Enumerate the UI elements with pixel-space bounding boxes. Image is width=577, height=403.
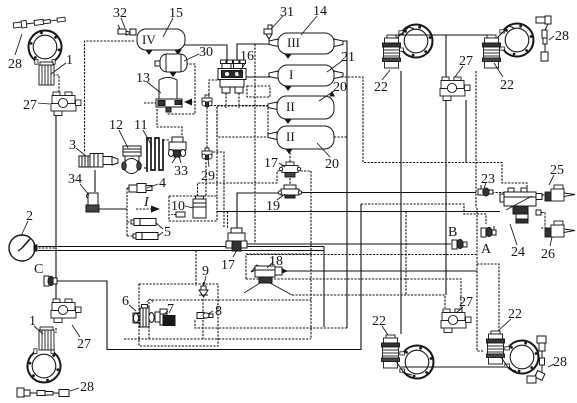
svg-text:I: I [289, 67, 293, 82]
wire valve27 TR right drop [465, 100, 467, 163]
svg-text:22: 22 [508, 307, 522, 322]
leader 2 [21, 221, 28, 236]
wire riser to trailer valve [477, 208, 484, 351]
svg-text:29: 29 [201, 169, 215, 184]
spring brake chamber 22c [382, 335, 400, 368]
svg-text:30: 30 [199, 45, 213, 60]
valve 27 bottom-left [51, 299, 81, 323]
box around regulator 10 [169, 196, 217, 221]
leader 30 [184, 54, 199, 61]
trailer control valve 24 [500, 188, 545, 228]
svg-text:25: 25 [550, 163, 564, 178]
svg-text:B: B [448, 225, 457, 240]
leader 26 [550, 237, 552, 246]
reservoir I [269, 65, 343, 90]
leader 10 [185, 206, 193, 208]
svg-text:2: 2 [26, 209, 33, 224]
accelerator valve 19 [278, 185, 301, 198]
hand brake valve 3 [79, 154, 118, 168]
wire rear brake return line [195, 319, 347, 328]
svg-text:28: 28 [80, 380, 94, 395]
svg-text:34: 34 [68, 172, 82, 187]
svg-text:17: 17 [221, 258, 235, 273]
box small manifold [247, 86, 270, 97]
wire riser x217 to regulator box [216, 107, 218, 196]
leader 34 [80, 184, 89, 195]
pressure gauge 2 [9, 235, 37, 261]
leader 1 bottom [34, 326, 43, 334]
svg-text:A: A [481, 242, 492, 257]
svg-text:21: 21 [341, 50, 355, 65]
valve B [452, 239, 467, 249]
wheel sensor 28 bottom-left [17, 388, 69, 397]
leader 17 lower [233, 250, 237, 257]
svg-text:22: 22 [372, 314, 386, 329]
svg-text:33: 33 [174, 164, 188, 179]
leader 1 top [51, 63, 66, 74]
wire drop from dual line [323, 247, 325, 328]
leader 28 bottom-right [548, 364, 554, 367]
wire arrow I line [136, 208, 153, 210]
wheel rear-bottom-right [505, 341, 539, 374]
wire valveA feed [361, 204, 486, 224]
leader 32 [121, 18, 125, 28]
svg-text:II: II [286, 129, 295, 144]
reservoir III [269, 33, 343, 58]
safety valve [202, 95, 212, 107]
wire arrow to safety valve [186, 101, 196, 103]
pressure reducer 4 [129, 184, 152, 193]
wheel front-bottom-left [27, 349, 60, 383]
wire chamber22b service line [475, 71, 477, 208]
leader 7 [163, 311, 168, 315]
wire dryer to regeneration loop [168, 64, 195, 114]
node I arrowhead [151, 206, 160, 213]
svg-text:22: 22 [374, 80, 388, 95]
svg-text:8: 8 [215, 304, 222, 319]
wire riser to parts 4 and 5 [126, 188, 128, 237]
leader 29 [208, 159, 209, 167]
wire valve27 TR to valve27 BR [445, 100, 447, 295]
wire control line to valve24 [217, 211, 500, 213]
svg-text:12: 12 [109, 118, 123, 133]
drain valve 29 [202, 148, 212, 160]
leader 22b [494, 63, 503, 77]
four-circuit protection valve 16 [218, 60, 246, 93]
wire hand valve 3 to valve 34 [94, 170, 96, 192]
wire chamber1 BL to valve27 BL [55, 328, 57, 333]
wire feed line to reservoir II upper [207, 105, 277, 107]
cylinder 5 upper [131, 219, 156, 226]
wire safety valve down to valve29 [206, 107, 208, 148]
svg-text:27: 27 [77, 337, 91, 352]
leader 28 bottom-left [70, 388, 79, 391]
wire valve23 to valve24 [492, 192, 504, 194]
coupling head 25 [545, 185, 575, 201]
drain valve 31 [264, 25, 272, 43]
wire valve27 TL down trunk [55, 114, 57, 299]
wire chamber22a service line [400, 71, 402, 334]
leader 4 [147, 184, 158, 188]
leader 11 [143, 130, 152, 146]
wire drain 9 drop [195, 251, 197, 287]
wire valve27 TR drop [445, 35, 447, 78]
svg-text:3: 3 [69, 138, 76, 153]
svg-text:24: 24 [511, 245, 525, 260]
svg-text:20: 20 [333, 80, 347, 95]
svg-text:C: C [34, 262, 43, 277]
svg-text:26: 26 [541, 247, 555, 262]
brake valve 17 upper [279, 162, 300, 177]
condensate reservoir 30 [155, 54, 187, 76]
leader 27 top-right [455, 66, 463, 77]
svg-text:11: 11 [134, 118, 147, 133]
wire axle link top [396, 34, 492, 36]
leader 9 [204, 276, 206, 285]
box cab unit [217, 106, 268, 137]
wire valve16 bottom stubs [226, 93, 239, 108]
reservoir II upper [268, 92, 334, 123]
wire junction down from manifold [254, 44, 256, 244]
svg-text:9: 9 [202, 264, 209, 279]
leader 22d [498, 319, 511, 331]
wire valve24 to coupling26 [541, 227, 545, 229]
relay valve 17 lower [226, 228, 247, 251]
pressure regulator 10 [171, 196, 206, 218]
leader 6 [129, 305, 136, 311]
leader 12 [119, 130, 128, 148]
svg-text:4: 4 [159, 176, 166, 191]
wire jog to chamber22d [477, 264, 499, 331]
wheel rear-bottom-left [400, 346, 434, 379]
unloader valve 33 [168, 137, 186, 163]
leader 31 [271, 16, 283, 29]
leader 28 top-right [549, 36, 554, 40]
wire dryer left stub [144, 102, 157, 104]
leader 14 [301, 16, 317, 35]
wire dryer to valve33 [157, 109, 182, 137]
wheel rear-top-right [500, 23, 534, 56]
svg-text:15: 15 [169, 6, 183, 21]
svg-text:32: 32 [113, 6, 127, 21]
svg-text:27: 27 [459, 54, 473, 69]
leader 19 [277, 194, 285, 200]
cylinder 5 lower [133, 233, 158, 240]
wheel sensor 28 top-left [13, 16, 65, 29]
valve C [44, 276, 57, 286]
svg-text:23: 23 [481, 172, 495, 187]
wire valve24 to coupling25 [542, 194, 545, 196]
svg-text:31: 31 [280, 5, 294, 20]
wire reservoir II bottom to valve17 [289, 149, 291, 163]
svg-text:14: 14 [313, 4, 327, 19]
svg-text:1: 1 [29, 314, 36, 329]
leader 20 upper [319, 91, 334, 101]
coupling head 26 [545, 221, 575, 237]
leader 28 top-left [15, 34, 22, 55]
svg-text:III: III [287, 35, 300, 50]
spring brake chamber 22b [483, 35, 501, 68]
leader 25 [549, 175, 554, 185]
brake pedal valve 6 [133, 299, 154, 327]
leader 22a [382, 70, 390, 80]
svg-text:20: 20 [325, 157, 339, 172]
wheel front-left [28, 31, 61, 65]
wire valve17b to valveB [246, 243, 451, 245]
brake chamber 1 front-left [39, 62, 54, 85]
box inner around 7 and 8 [124, 300, 311, 339]
wire valve16 to reservoir III [237, 44, 277, 66]
wire dual control line upper [38, 246, 324, 248]
leader 18 [267, 262, 273, 268]
spring brake chamber 22a [383, 35, 401, 68]
svg-text:10: 10 [171, 199, 185, 214]
wire valve18 output line [283, 270, 477, 272]
wire reservoir II lower right stub [334, 136, 347, 138]
wheel rear-top-left [399, 24, 433, 57]
wire valve34 to node I [93, 208, 127, 210]
wire x406 riser [405, 212, 407, 296]
wire valve19 to valve23 supply [298, 192, 476, 194]
svg-text:18: 18 [269, 254, 283, 269]
brake chamber 1 front-bottom [39, 327, 54, 350]
wire feed to reservoir II lower [268, 135, 277, 137]
drain valve 32 [118, 25, 136, 35]
load sensing valve 18 [244, 265, 292, 295]
svg-text:1: 1 [66, 53, 73, 68]
svg-text:II: II [286, 99, 295, 114]
svg-text:28: 28 [555, 29, 569, 44]
leader 27 top-left [38, 103, 50, 104]
spring brake chamber 22d [487, 331, 505, 364]
wire reservoir I right circuit to trailer [334, 77, 527, 191]
wire valve19 left to valve17b [237, 193, 283, 228]
valve 7 with switch [155, 309, 175, 326]
leader 33 [179, 156, 181, 163]
svg-text:22: 22 [500, 78, 514, 93]
leader 21 [327, 61, 342, 72]
wire reservoir IV left to long vertical [85, 41, 135, 152]
safety valve arrowhead [184, 99, 192, 106]
wheel sensor 28 bottom-right [527, 336, 546, 383]
leader 23 [484, 183, 486, 188]
leader 22c [382, 326, 388, 335]
wire gauge link [35, 247, 56, 249]
svg-text:5: 5 [164, 225, 171, 240]
wire rear axle bottom link [401, 366, 504, 368]
valve 34 [86, 193, 99, 212]
wire branch to part5 lower [127, 235, 136, 237]
svg-text:7: 7 [167, 302, 174, 317]
compressor 12 [122, 146, 141, 174]
svg-text:13: 13 [136, 71, 150, 86]
leader 16 [238, 62, 246, 74]
wire serpentine to valve33 [163, 139, 169, 141]
wire valve29 down to regulator box [205, 162, 207, 196]
wire branch to part4 [127, 187, 131, 189]
svg-text:19: 19 [266, 199, 280, 214]
wire riser x311 [297, 171, 311, 339]
single protection valve 23 [478, 185, 493, 196]
wire valve29 branch to valve17b [213, 152, 224, 228]
wire below drain 9 [202, 299, 204, 339]
wire reservoir III right circuit [334, 41, 347, 328]
wire compressor to serpentine [144, 167, 147, 169]
valve A [481, 226, 496, 237]
svg-text:27: 27 [23, 98, 37, 113]
wire chamber1 to valve27 TL [53, 75, 59, 92]
svg-text:16: 16 [240, 49, 254, 64]
wire valve16 right to reservoir I [244, 76, 277, 78]
wire line y254 control [247, 254, 476, 256]
cooling coil 11 [147, 138, 163, 172]
box outer brake valve 6 [139, 284, 218, 346]
leader 27 bottom-left [72, 325, 80, 337]
valve 27 top-right [440, 77, 470, 101]
wire box valve18 [246, 254, 311, 279]
air dryer 13 [156, 78, 182, 113]
wire brake valve C line [55, 204, 361, 350]
leader 13 [147, 82, 161, 93]
wire load valve control to valve27 BR [292, 295, 445, 308]
wire valve17 to valve19 [289, 178, 291, 185]
drain valve 9 [199, 282, 208, 297]
svg-text:28: 28 [553, 355, 567, 370]
leader 20 lower [317, 143, 330, 157]
sensor 8 [197, 313, 213, 319]
wire reservoir IV right to valve16 [184, 45, 227, 66]
valve 27 top-left [51, 92, 81, 116]
wire second riser to valve17b [227, 212, 229, 229]
svg-text:17: 17 [264, 156, 278, 171]
leader 5 [156, 223, 163, 236]
svg-text:IV: IV [142, 32, 156, 47]
leader 24 [510, 224, 517, 245]
wire branch to part5 upper [127, 221, 134, 223]
wire line y279 to valve27 BR [246, 279, 461, 308]
leader 3 [76, 148, 86, 156]
reservoir IV [137, 29, 185, 54]
valve 27 bottom-right [441, 309, 471, 333]
leader 27 bottom-right [456, 307, 463, 313]
wheel sensor 28 top-right [536, 16, 551, 61]
wire valve17 left port line [198, 171, 284, 196]
leader 15 [163, 18, 173, 37]
leader 8 [208, 311, 213, 314]
wire dual control line lower [38, 250, 324, 252]
svg-text:27: 27 [459, 295, 473, 310]
wire valve16 left port to safety valve [209, 80, 221, 95]
svg-text:28: 28 [8, 57, 22, 72]
reservoir II lower [268, 126, 334, 153]
svg-text:6: 6 [122, 294, 129, 309]
leader 17 upper [279, 163, 285, 167]
